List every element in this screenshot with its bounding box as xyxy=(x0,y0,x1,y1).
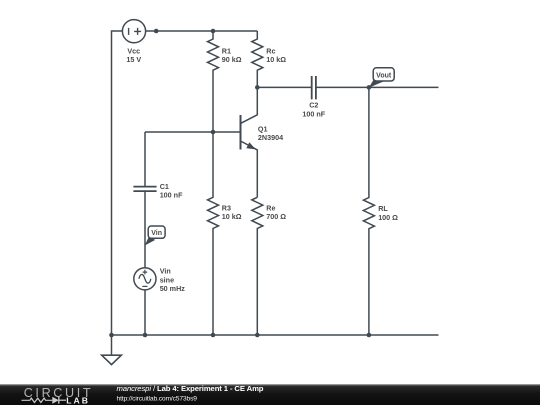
wire collector node to C2 left plate xyxy=(257,86,311,88)
label RL 100 Ohm xyxy=(378,204,398,222)
svg-text:Q1: Q1 xyxy=(258,124,268,133)
label Re 700 Ohm xyxy=(266,203,286,221)
svg-text:2N3904: 2N3904 xyxy=(258,133,283,142)
wire Vin source bottom lead xyxy=(144,290,146,335)
svg-text:Re: Re xyxy=(266,203,275,212)
svg-text:Vin: Vin xyxy=(160,267,171,276)
wire C1 branch top lead xyxy=(144,132,146,187)
svg-text:C2: C2 xyxy=(309,101,318,110)
wire C1 bottom plate to Vin source xyxy=(144,191,146,268)
wire base wire from C1 branch to Q1 base xyxy=(145,131,241,133)
transistor Q1 xyxy=(241,87,258,197)
svg-text:Rc: Rc xyxy=(266,46,275,55)
svg-text:Vcc: Vcc xyxy=(127,46,140,55)
label R1 90 kOhm xyxy=(222,46,242,64)
svg-text:100 Ω: 100 Ω xyxy=(378,213,398,222)
svg-text:sine: sine xyxy=(160,275,174,284)
voltage source Vcc xyxy=(122,20,145,43)
footer title text xyxy=(117,384,264,393)
svg-text:C1: C1 xyxy=(160,182,169,191)
label R3 10 kOhm xyxy=(222,203,242,221)
CircuitLab logo resistor-diode line xyxy=(22,397,67,404)
label Vcc 15 V xyxy=(126,46,141,64)
node junction at R1 top xyxy=(211,29,216,34)
wire left rail from Vcc minus terminal down to bottom rail xyxy=(112,31,123,335)
svg-text:R3: R3 xyxy=(222,203,231,212)
node junction at Re bottom xyxy=(255,333,260,338)
wire C2 right plate to open end xyxy=(316,86,439,88)
svg-text:RL: RL xyxy=(378,204,388,213)
resistor Re xyxy=(252,197,263,335)
svg-text:50 mHz: 50 mHz xyxy=(160,284,186,293)
CircuitLab logo text CIRCUIT xyxy=(24,386,91,400)
svg-text:http://circuitlab.com/c573bs9: http://circuitlab.com/c573bs9 xyxy=(117,395,198,402)
svg-text:mancrespi / Lab 4: Experiment: mancrespi / Lab 4: Experiment 1 - CE Amp xyxy=(117,384,264,393)
CircuitLab logo text LAB xyxy=(66,395,88,405)
svg-text:Vin: Vin xyxy=(151,230,162,237)
net flag Vin xyxy=(145,226,165,246)
resistor R3 xyxy=(208,132,219,335)
footer bar xyxy=(0,384,540,405)
resistor R1 xyxy=(208,31,219,132)
node junction at Vout xyxy=(367,85,372,90)
capacitor C2 xyxy=(312,76,316,99)
node junction at base node xyxy=(211,130,216,135)
ground xyxy=(102,335,122,365)
svg-text:100 nF: 100 nF xyxy=(302,109,325,118)
node junction bottom left at ground xyxy=(109,333,114,338)
footer url text xyxy=(117,395,198,402)
node junction at R3 bottom xyxy=(211,333,216,338)
node junction at RL bottom xyxy=(367,333,372,338)
resistor RL xyxy=(363,87,374,335)
svg-text:10 kΩ: 10 kΩ xyxy=(222,212,242,221)
svg-text:100 nF: 100 nF xyxy=(160,191,183,200)
svg-text:10 kΩ: 10 kΩ xyxy=(266,55,286,64)
label C1 100 nF xyxy=(160,182,183,200)
svg-text:LAB: LAB xyxy=(66,395,88,405)
node junction at Vcc output xyxy=(154,29,159,34)
node junction at Vin bottom xyxy=(143,333,148,338)
svg-text:Vout: Vout xyxy=(376,72,392,79)
resistor Rc xyxy=(252,31,263,87)
svg-text:90 kΩ: 90 kΩ xyxy=(222,55,242,64)
svg-text:15 V: 15 V xyxy=(126,55,141,64)
voltage source Vin xyxy=(134,268,156,290)
svg-text:700 Ω: 700 Ω xyxy=(266,212,286,221)
label C2 100 nF xyxy=(302,101,325,119)
label Rc 10 kOhm xyxy=(266,46,286,64)
label Vin sine 50 mHz xyxy=(160,267,186,294)
wire bottom rail xyxy=(112,334,439,336)
svg-text:R1: R1 xyxy=(222,46,231,55)
net flag Vout xyxy=(369,68,394,88)
node junction at collector node xyxy=(255,85,260,90)
label Q1 2N3904 xyxy=(258,124,283,142)
wire top rail from Vcc plus terminal to Rc xyxy=(146,30,258,32)
capacitor C1 xyxy=(133,187,156,192)
